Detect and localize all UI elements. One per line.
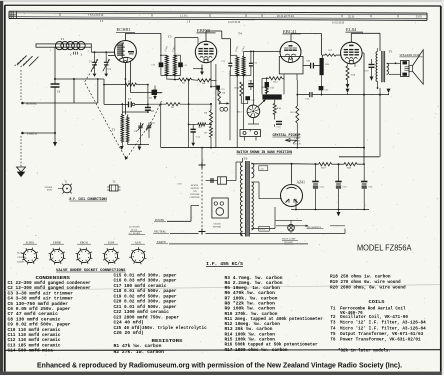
wire EBC41 plate: [290, 34, 292, 42]
capacitor C11: [178, 62, 183, 67]
free plug: [286, 139, 298, 141]
terminal AERIAL: [21, 102, 24, 105]
wire EL84 k: [354, 63, 356, 67]
wire ECH81 cathode: [124, 63, 126, 115]
tube EBF80: [195, 41, 216, 62]
svg-text:NEUTRAL: NEUTRAL: [154, 230, 167, 233]
wire EBF80 cathode: [201, 65, 203, 72]
svg-text:BOARD: BOARD: [285, 241, 293, 244]
wire gram: [202, 189, 212, 191]
resistor R18cath: [346, 66, 349, 80]
resistor R12: [269, 77, 282, 80]
dial scale: [9, 11, 427, 13]
svg-text:C18 0.01 mfd 500v. paper: C18 0.01 mfd 500v. paper: [114, 289, 178, 294]
svg-text:MODEL FZ856A: MODEL FZ856A: [357, 243, 412, 252]
potentiometer R11: [262, 94, 281, 99]
wire EL84 plate: [350, 33, 352, 42]
svg-text:C9 0.02 mfd 500v. paper: C9 0.02 mfd 500v. paper: [8, 323, 72, 328]
capacitor C9: [131, 92, 152, 94]
svg-text:VOLUME: VOLUME: [190, 194, 200, 196]
terminal EARTH: [21, 132, 24, 135]
gang dashed link: [85, 64, 163, 159]
resistor R2: [166, 103, 180, 106]
wire rail 148: [161, 147, 364, 149]
wire pickup: [253, 51, 255, 105]
wire R5 left: [188, 80, 190, 148]
svg-text:C1 22—300 mmfd ganged conden: C1 22—300 mmfd ganged condenser: [8, 281, 92, 286]
box EBC41 socket: [279, 57, 303, 74]
svg-text:POWER: POWER: [155, 219, 164, 222]
ground earth: [54, 133, 56, 142]
capacitor C19: [276, 121, 282, 123]
svg-text:250 VOLTS: 250 VOLTS: [129, 227, 140, 229]
svg-text:C13 185 mmfd ceramic: C13 185 mmfd ceramic: [8, 343, 61, 348]
svg-text:C14 500 mmfd mica: C14 500 mmfd mica: [8, 349, 54, 354]
wire heater bus: [313, 94, 389, 96]
svg-text:EL84: EL84: [108, 241, 115, 244]
trimmer C5: [148, 123, 150, 126]
svg-text:T4: T4: [238, 32, 242, 36]
svg-text:C3 3—30 mmfd air trimmer: C3 3—30 mmfd air trimmer: [8, 291, 74, 296]
capacitor C21: [309, 92, 311, 97]
svg-text:C12 110 mmfd ceramic: C12 110 mmfd ceramic: [8, 338, 61, 343]
border frame: [5, 4, 441, 7]
resistor R3: [179, 78, 192, 81]
resistor R14: [240, 82, 243, 96]
wire b+ b: [332, 163, 344, 165]
wire EBF80 plate: [205, 31, 207, 41]
svg-text:R.F. COIL CONNECTIONS: R.F. COIL CONNECTIONS: [70, 198, 108, 202]
ground osc: [138, 145, 140, 147]
svg-text:25 33: 25 33: [348, 15, 355, 18]
svg-text:1: 1: [50, 50, 51, 52]
svg-text:CONDENSERS: CONDENSERS: [36, 276, 71, 281]
svg-text:(DOT): (DOT): [47, 189, 53, 192]
potentiometer R16: [320, 58, 324, 75]
resistor R19: [319, 163, 332, 166]
resistor R6: [210, 111, 213, 125]
svg-text:R10: R10: [277, 107, 282, 110]
gram motor: [212, 198, 228, 218]
svg-text:C10 110 mmfd ceramic: C10 110 mmfd ceramic: [8, 328, 61, 333]
wire switch top: [201, 148, 203, 162]
resistor R15: [296, 106, 299, 123]
svg-text:T2: T2: [331, 316, 336, 320]
svg-text:C12: C12: [222, 61, 226, 63]
svg-text:C23 2800 mmfd 750v. paper: C23 2800 mmfd 750v. paper: [114, 315, 180, 320]
svg-text:C6 0.05 mfd 250v. paper: C6 0.05 mfd 250v. paper: [8, 307, 72, 312]
switch dashed: [201, 168, 203, 229]
ground bus b: [387, 89, 391, 93]
wire T1 tap down: [54, 47, 56, 79]
svg-text:AZ41: AZ41: [297, 181, 306, 185]
wire rail 156: [339, 156, 380, 158]
resistor R1: [125, 83, 137, 86]
resistor R10v: [273, 104, 276, 115]
wire ECH81 pin: [130, 62, 132, 93]
svg-text:C8 130 mmfd ceramic: C8 130 mmfd ceramic: [8, 317, 61, 322]
svg-text:C26 20 mfd): C26 20 mfd): [114, 331, 144, 336]
wire misc2: [296, 74, 298, 80]
wire osc feed: [160, 104, 162, 147]
svg-text:Oscillator Coil, VK-471-90: Oscillator Coil, VK-471-90: [340, 315, 408, 320]
svg-text:T5: T5: [331, 333, 336, 337]
wire det bus: [274, 124, 276, 127]
wire b+ c: [357, 163, 364, 165]
svg-text:C17 100 mmfd ceramic: C17 100 mmfd ceramic: [114, 284, 167, 289]
svg-text:C4 3—30 mmfd air trimmer: C4 3—30 mmfd air trimmer: [8, 297, 74, 302]
wire gnd rail: [291, 209, 369, 211]
capacitor C7: [104, 103, 129, 105]
capacitor C6: [51, 83, 60, 85]
svg-text:AZ41: AZ41: [135, 241, 142, 244]
capacitor C15: [216, 85, 220, 89]
wire power up: [190, 206, 192, 222]
svg-text:C24 40 mfd): C24 40 mfd): [114, 321, 144, 326]
wire T5 top: [378, 51, 381, 53]
wire b+ a: [296, 163, 319, 165]
wire osc join: [122, 111, 148, 113]
capacitor C26: [361, 181, 367, 183]
wire T6 sec3: [251, 228, 275, 230]
wire EARTH: [24, 132, 55, 134]
resistor R20: [344, 163, 357, 166]
wire to EL84 grid: [321, 55, 323, 58]
svg-text:PILOT LAMP: PILOT LAMP: [282, 238, 296, 241]
svg-text:C16 0.03 mfd 300v. paper: C16 0.03 mfd 300v. paper: [114, 279, 178, 284]
capacitor C23: [369, 64, 375, 66]
switch mains bottom: [199, 231, 206, 233]
svg-text:SPEAKER 6T4K: SPEAKER 6T4K: [400, 53, 421, 57]
trimmer C3: [105, 51, 107, 53]
svg-text:EBF80: EBF80: [53, 241, 62, 244]
svg-text:T1: T1: [331, 308, 336, 312]
svg-text:MOTOR: MOTOR: [213, 227, 222, 229]
wire trimmer bus: [91, 51, 114, 53]
wire T3 sec top: [174, 38, 176, 56]
wire ECH81 plate: [124, 33, 126, 40]
svg-text:C20 0.02 mfd 300v. paper: C20 0.02 mfd 300v. paper: [114, 300, 178, 305]
switch box: [240, 130, 261, 137]
svg-text:EBC41: EBC41: [283, 29, 297, 34]
svg-text:CONTROL: CONTROL: [190, 197, 201, 199]
svg-text:EBF80: EBF80: [197, 28, 211, 33]
svg-text:R18 250 ohms 1w. carbon: R18 250 ohms 1w. carbon: [330, 274, 391, 279]
svg-text:R5 10meg. 1w. carbon: R5 10meg. 1w. carbon: [225, 286, 281, 291]
wire T4 bottoms: [230, 75, 251, 77]
svg-text:T6: T6: [244, 157, 248, 161]
svg-text:SWITCH: SWITCH: [191, 188, 200, 190]
wire grid bus: [55, 78, 104, 80]
ground bus a: [346, 89, 350, 93]
svg-text:6.3 V.: 6.3 V.: [260, 229, 266, 231]
tube EBC41: [280, 42, 301, 63]
capacitor C20: [304, 65, 311, 67]
wire AERIAL: [24, 102, 98, 104]
capacitor C8: [147, 104, 149, 107]
svg-text:HEATERS: HEATERS: [17, 252, 25, 255]
svg-text:EARTH: EARTH: [157, 241, 166, 244]
svg-text:MAINS: MAINS: [191, 184, 199, 187]
wire R3-R4: [192, 79, 198, 82]
wire aerial up: [73, 79, 75, 103]
capacitor C22: [153, 89, 157, 91]
wire aerial drop: [20, 70, 22, 100]
label 4F: [259, 166, 268, 171]
plug C18: [206, 180, 218, 182]
svg-text:14 15 18 20: 14 15 18 20: [228, 22, 241, 24]
svg-text:ECH81: ECH81: [117, 27, 131, 32]
wire pickup line: [230, 139, 286, 141]
wire osc grid: [103, 79, 105, 104]
svg-text:): ): [81, 53, 82, 57]
switch mains top: [199, 164, 206, 166]
svg-text:R11 2meg. tapped at 400k pote: R11 2meg. tapped at 400k potentiometer: [225, 317, 324, 322]
svg-text:*32k in later models.: *32k in later models.: [338, 348, 391, 353]
svg-text:R20 2600 ohms, 6w. wire wound: R20 2600 ohms, 6w. wire wound: [330, 286, 406, 291]
wire EL84 screen: [362, 52, 364, 54]
svg-text:GRAM: GRAM: [214, 223, 221, 226]
svg-text:C15 0.01 mfd 300v. paper: C15 0.01 mfd 300v. paper: [114, 273, 178, 278]
svg-text:T6: T6: [331, 339, 336, 343]
wire drop pickup: [229, 71, 231, 141]
svg-text:R2 27k. 1w. carbon: R2 27k. 1w. carbon: [114, 350, 165, 355]
capacitor C16: [245, 96, 250, 100]
label 6V: [259, 226, 270, 231]
svg-text:VALVE UNDER SOCKET CONNECTION: VALVE UNDER SOCKET CONNECTIONS: [56, 269, 126, 273]
wire misc1: [283, 80, 285, 94]
svg-text:C11: C11: [183, 65, 187, 67]
transformer T1: [36, 44, 91, 47]
svg-text:4 F.: 4 F.: [260, 168, 264, 170]
svg-text:T1: T1: [61, 37, 65, 41]
svg-text:FILAMENTS: FILAMENTS: [307, 226, 322, 229]
tube ECH81: [114, 41, 136, 63]
svg-text:COILS: COILS: [369, 300, 385, 305]
pickup socket: [247, 105, 260, 118]
svg-text:C5 130—750 mmfd padder: C5 130—750 mmfd padder: [8, 302, 69, 307]
wire fil: [276, 225, 298, 227]
capacitor C22b: [319, 86, 324, 90]
svg-text:Output Transformer, VK-671-61: Output Transformer, VK-671-61/63: [340, 332, 424, 337]
trimmer C1: [94, 51, 96, 53]
svg-text:14 15 18 20: 14 15 18 20: [332, 22, 345, 24]
wire T5 bottom: [377, 82, 379, 89]
earth dashed drop: [20, 136, 22, 167]
wire drop1: [261, 78, 263, 94]
resistor R5: [198, 123, 206, 126]
resistor R7: [210, 126, 213, 137]
wire T4 sec top: [243, 51, 245, 56]
svg-text:T3: T3: [168, 35, 172, 39]
svg-text:T4: T4: [331, 327, 336, 331]
capacitor C25: [335, 181, 341, 183]
svg-text:CATHODE: CATHODE: [17, 256, 26, 259]
wire T3 bottom: [161, 75, 181, 77]
switch S2 arrow: [215, 64, 217, 148]
svg-text:RESISTORS: RESISTORS: [152, 339, 183, 344]
svg-text:C22 1300 mmfd ceramic: C22 1300 mmfd ceramic: [114, 310, 170, 315]
svg-text:R19 270 ohms 6w. wire wound: R19 270 ohms 6w. wire wound: [330, 280, 401, 285]
wire AZ41 top: [291, 164, 293, 182]
tube AZ41: [281, 185, 303, 207]
wire T6 primary: [241, 233, 243, 236]
svg-text:T5: T5: [389, 50, 393, 54]
svg-text:C11 110 mmfd ceramic: C11 110 mmfd ceramic: [8, 333, 61, 338]
svg-text:R16 500k tapped at 50k potent: R16 500k tapped at 50k potentiometer: [225, 343, 319, 348]
svg-text:C21 0.01 mfd 500v. paper: C21 0.01 mfd 500v. paper: [114, 305, 178, 310]
svg-text:Micro '12' I.F. filter, A3-12: Micro '12' I.F. filter, A3-126-84: [340, 321, 426, 326]
capacitor C10: [159, 62, 164, 67]
wire AVC bus: [167, 78, 179, 81]
wire EBC41 pins: [283, 74, 285, 80]
svg-text:SCREEN: SCREEN: [17, 262, 25, 264]
svg-text:C2 12—300 mmfd ganged conden: C2 12—300 mmfd ganged condenser: [8, 286, 92, 291]
fold line: [5, 285, 440, 291]
capacitor C17: [248, 83, 253, 85]
svg-text:EL84: EL84: [346, 27, 357, 32]
wire x364: [363, 147, 365, 149]
wire drop2: [261, 78, 263, 94]
resistor R8: [265, 85, 268, 94]
svg-text:A.C. MAINS: A.C. MAINS: [129, 232, 142, 235]
svg-text:C19 0.02 mfd 500v. paper: C19 0.02 mfd 500v. paper: [114, 294, 178, 299]
dial scale ticks: [59, 13, 61, 16]
wire tone down: [321, 75, 323, 94]
svg-text:20 21 24 73 24: 20 21 24 73 24: [277, 15, 294, 18]
aerial symbol: [15, 55, 28, 66]
svg-text:T3: T3: [331, 322, 336, 326]
svg-text:ON: ON: [194, 191, 198, 193]
svg-text:ECH81: ECH81: [26, 241, 35, 244]
svg-text:Ferrocombe Rod Aerial Coil: Ferrocombe Rod Aerial Coil: [340, 307, 406, 312]
svg-text:Micro '12' I.F. filter, A3-12: Micro '12' I.F. filter, A3-126-84: [340, 326, 426, 331]
capacitor C18 grid: [265, 82, 269, 87]
trimmer C4: [140, 123, 142, 126]
tube EL84: [341, 42, 363, 64]
pilot lamp: [288, 225, 295, 232]
svg-text:7 5 5 2 8 9 10: 7 5 5 2 8 9 10: [88, 14, 104, 17]
svg-text:Enhanced & reproduced by Radio: Enhanced & reproduced by Radiomuseum.org…: [37, 360, 402, 369]
svg-text:C25 40 mfd)350v. triple elect: C25 40 mfd)350v. triple electrolytic: [114, 326, 208, 331]
capacitor C24: [312, 181, 318, 183]
resistor R4: [198, 79, 212, 82]
ground rail: [338, 210, 340, 213]
svg-text:5 8 9: 5 8 9: [416, 16, 422, 19]
capacitor C13: [249, 62, 253, 64]
wire T6 sec1: [251, 181, 259, 183]
svg-text:EBC41: EBC41: [80, 241, 89, 244]
svg-text:Power Transformer, VK-631-02/: Power Transformer, VK-631-02/01: [340, 338, 421, 343]
capacitor C14: [191, 128, 196, 130]
wire AZ41 down: [291, 207, 293, 210]
oscillator coil T2: [121, 115, 124, 143]
capacitor C12: [228, 62, 232, 64]
svg-text:T2: T2: [112, 128, 116, 132]
svg-text:1 1 8 1: 1 1 8 1: [180, 15, 188, 18]
wire b+ drops: [315, 164, 317, 181]
wire T6 ht: [251, 163, 296, 165]
